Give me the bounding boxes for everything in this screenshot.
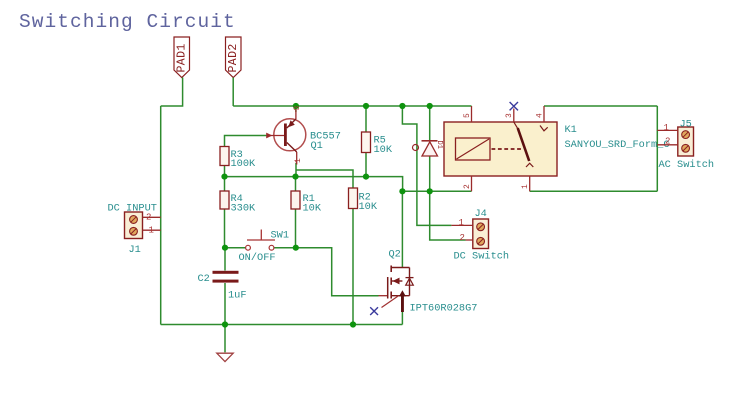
wire SW1 right run	[274, 248, 379, 296]
svg-text:3: 3	[293, 106, 302, 111]
svg-text:1: 1	[459, 218, 464, 228]
wire diode top	[429, 106, 431, 141]
wire bottom rail	[161, 324, 403, 326]
wire R5 bottom	[365, 153, 367, 177]
svg-text:2: 2	[463, 184, 472, 189]
relay pin 5	[471, 106, 473, 122]
hierarchical label PAD1	[174, 37, 190, 78]
wire R5 top	[365, 106, 367, 132]
relay pin 2	[471, 176, 473, 191]
svg-text:10K: 10K	[374, 144, 393, 156]
connector J5	[657, 119, 714, 172]
wire C2 bottom	[224, 283, 226, 325]
svg-text:J4: J4	[475, 208, 487, 220]
relay pin 4	[543, 106, 545, 122]
wire top rail B	[544, 105, 657, 107]
wire R4 top	[224, 177, 226, 191]
diode D1	[413, 141, 443, 157]
svg-text:IPT60R028G7: IPT60R028G7	[410, 303, 478, 315]
svg-text:10K: 10K	[359, 201, 378, 213]
svg-text:2: 2	[460, 233, 465, 243]
svg-text:3: 3	[505, 113, 514, 118]
ground	[217, 353, 233, 361]
svg-text:1: 1	[521, 184, 530, 189]
svg-text:AC Switch: AC Switch	[659, 159, 715, 171]
svg-text:Q2: Q2	[389, 249, 401, 261]
connector J1	[108, 203, 161, 257]
svg-text:1uF: 1uF	[228, 290, 247, 302]
svg-text:4: 4	[536, 113, 545, 118]
svg-text:C2: C2	[198, 273, 210, 285]
wire R3 bottom	[224, 166, 226, 177]
wire Q2 drain	[401, 191, 403, 267]
hierarchical label PAD2	[226, 37, 242, 78]
svg-text:100K: 100K	[231, 158, 257, 170]
transistor Q1	[266, 106, 341, 165]
wire R3 top to base	[225, 136, 271, 147]
wire PAD2 stem	[232, 78, 234, 107]
svg-text:DC Switch: DC Switch	[454, 251, 510, 263]
wire Q1 collector down	[295, 163, 297, 177]
resistor R1	[291, 191, 322, 215]
svg-text:Q1: Q1	[311, 140, 323, 152]
wire R2 bottom	[352, 209, 354, 325]
mosfet Q2	[370, 249, 477, 316]
svg-text:SW1: SW1	[271, 230, 290, 242]
relay pin 3 + no-connect	[513, 109, 515, 123]
svg-text:ON/OFF: ON/OFF	[239, 252, 276, 264]
relay pin 1	[529, 176, 531, 191]
svg-text:PAD2: PAD2	[227, 43, 240, 72]
resistor R4	[220, 191, 256, 215]
svg-text:2: 2	[665, 137, 670, 147]
svg-text:5: 5	[463, 113, 472, 118]
svg-text:D1: D1	[435, 141, 443, 149]
svg-text:SANYOU_SRD_Form_C: SANYOU_SRD_Form_C	[565, 139, 670, 151]
svg-text:K1: K1	[565, 124, 577, 136]
connector J4	[451, 208, 509, 263]
wire diode bottom	[429, 156, 431, 192]
wire J5 vertical	[656, 106, 658, 191]
wire SW1 left	[225, 247, 246, 249]
wire R4 bottom	[224, 209, 226, 248]
wire ground stem	[224, 325, 226, 353]
resistor R5	[362, 132, 393, 156]
svg-text:330K: 330K	[231, 203, 257, 215]
svg-text:1: 1	[664, 123, 669, 133]
svg-text:DC INPUT: DC INPUT	[108, 203, 157, 215]
wire to J4 pin2	[430, 191, 466, 240]
wire segment to R2 top	[296, 170, 353, 188]
svg-text:J1: J1	[129, 244, 141, 256]
wire jog to J4 pin1	[402, 106, 451, 225]
capacitor C2	[198, 271, 247, 302]
svg-text:1: 1	[294, 158, 303, 163]
wire top rail A	[233, 105, 471, 107]
wire C2 top	[224, 248, 226, 271]
relay K1	[444, 102, 670, 191]
wire R1 top	[295, 177, 297, 191]
svg-text:10K: 10K	[303, 203, 322, 215]
wire R1 bottom	[295, 209, 297, 248]
svg-text:PAD1: PAD1	[175, 43, 188, 72]
wire PAD1 stem	[161, 78, 183, 107]
wire left drop	[160, 106, 162, 325]
wire Q1 emitter top	[295, 106, 297, 112]
svg-text:J5: J5	[680, 119, 692, 131]
wire collector rail	[225, 177, 403, 192]
switch SW1	[239, 230, 290, 265]
resistor R2	[349, 188, 378, 213]
svg-text:1: 1	[149, 226, 154, 236]
wire rail D to J5	[530, 190, 658, 192]
svg-text:Switching Circuit: Switching Circuit	[19, 11, 236, 33]
wire coil rail C	[402, 190, 471, 192]
resistor R3	[220, 147, 256, 171]
wire Q2 source to rail	[401, 312, 403, 325]
junction dots	[221, 103, 432, 328]
